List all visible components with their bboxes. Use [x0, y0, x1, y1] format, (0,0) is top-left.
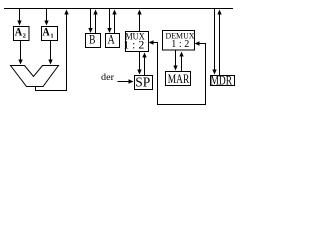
- arrowhead MUX into SP: [137, 70, 141, 75]
- svg-text:MAR: MAR: [168, 71, 190, 86]
- arrowhead into A: [107, 28, 111, 33]
- arrowhead A2 into ALU: [18, 60, 22, 65]
- wire bus to A: [109, 9, 111, 29]
- svg-text:MDR: MDR: [211, 73, 233, 88]
- arrowhead into A1: [44, 21, 48, 26]
- arrowhead bus into MDR: [212, 70, 216, 75]
- register B box: [86, 34, 101, 48]
- wire A to bus: [114, 14, 116, 34]
- svg-text:1 : 2: 1 : 2: [123, 39, 144, 51]
- wire A1 to ALU: [50, 41, 52, 61]
- register MDR box: [211, 76, 235, 86]
- svg-text:1: 1: [50, 33, 53, 40]
- register A1 box: [42, 27, 58, 41]
- arrowhead der into SP: [129, 79, 134, 83]
- wire SP to MUX: [144, 57, 146, 76]
- arrowhead ALU output to bus: [64, 10, 68, 15]
- wire DEMUX to MAR: [175, 51, 177, 67]
- register SP box: [135, 76, 153, 90]
- arrowhead MUX to bus: [137, 10, 141, 15]
- svg-text:2: 2: [23, 33, 26, 40]
- svg-text:SP: SP: [135, 74, 150, 89]
- arrowhead into A2: [17, 21, 21, 26]
- arrowhead A to bus: [112, 10, 116, 15]
- wire ALU output loop to bus: [36, 14, 67, 91]
- svg-text:A: A: [108, 32, 116, 46]
- register A2 box: [14, 27, 30, 41]
- wire MUX to bus: [139, 14, 141, 32]
- arrowhead A1 into ALU: [48, 60, 52, 65]
- svg-text:der: der: [101, 72, 114, 82]
- register A box: [106, 34, 120, 48]
- multiplexer MUX box: [126, 32, 149, 52]
- svg-text:B: B: [89, 32, 96, 47]
- ALU: [11, 66, 59, 87]
- wire bus to MDR: [214, 9, 216, 71]
- register MAR box: [166, 72, 191, 86]
- wire MDR to bus: [219, 14, 221, 76]
- demultiplexer DEMUX box: [163, 31, 195, 51]
- wire B to bus: [95, 14, 97, 34]
- arrowhead DEMUX into MAR: [173, 66, 177, 71]
- wire bus to A1: [46, 9, 48, 22]
- wire MUX to SP: [139, 52, 141, 71]
- svg-text:1 : 2: 1 : 2: [171, 39, 189, 50]
- arrowhead into B: [88, 28, 92, 33]
- svg-text:A: A: [42, 27, 50, 39]
- wire bus to B: [90, 9, 92, 29]
- wire MAR to DEMUX: [181, 57, 183, 72]
- arrowhead MDR to bus: [217, 10, 221, 15]
- bus (top horizontal data bus): [4, 8, 233, 10]
- wire MUX right input loop: [154, 43, 206, 105]
- wire A2 to ALU: [20, 41, 22, 61]
- arrowhead loop into MUX right: [149, 40, 154, 44]
- arrowhead MAR into DEMUX: [179, 52, 183, 57]
- wire bus to A2: [19, 9, 21, 22]
- arrowhead SP into MUX: [142, 53, 146, 58]
- arrowhead B to bus: [93, 10, 97, 15]
- wire der to SP: [118, 81, 130, 83]
- arrowhead loop into DEMUX right: [195, 41, 200, 45]
